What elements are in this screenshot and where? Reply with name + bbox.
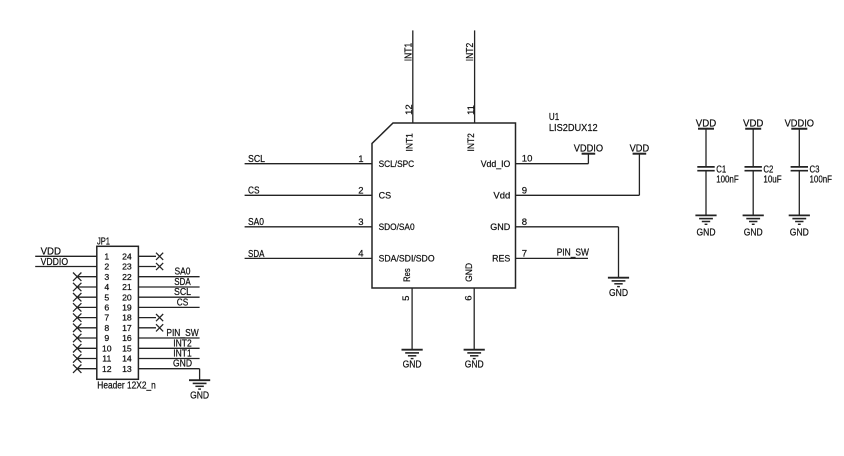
svg-text:12: 12: [102, 364, 112, 374]
svg-text:23: 23: [122, 262, 132, 272]
svg-text:Header 12X2_n: Header 12X2_n: [97, 380, 156, 391]
svg-text:18: 18: [122, 313, 132, 323]
svg-text:100nF: 100nF: [810, 174, 833, 185]
svg-text:LIS2DUX12: LIS2DUX12: [549, 123, 598, 134]
svg-text:SCL/SPC: SCL/SPC: [379, 159, 415, 169]
svg-text:9: 9: [522, 185, 527, 196]
svg-text:1: 1: [104, 251, 109, 261]
svg-text:JP1: JP1: [97, 237, 110, 248]
svg-text:VDDIO: VDDIO: [574, 144, 604, 155]
svg-text:9: 9: [104, 333, 109, 343]
svg-text:24: 24: [122, 251, 132, 261]
svg-text:21: 21: [122, 282, 132, 292]
svg-text:VDD: VDD: [696, 118, 716, 129]
svg-text:6: 6: [104, 303, 109, 313]
svg-text:14: 14: [122, 354, 132, 364]
svg-text:SDO/SA0: SDO/SA0: [379, 222, 415, 232]
svg-text:2: 2: [358, 186, 363, 197]
svg-text:GND: GND: [403, 360, 422, 371]
svg-text:GND: GND: [790, 227, 809, 238]
svg-text:13: 13: [122, 364, 132, 374]
svg-text:CS: CS: [177, 297, 189, 308]
svg-text:16: 16: [122, 333, 132, 343]
svg-text:VDD: VDD: [41, 246, 61, 257]
svg-text:2: 2: [104, 262, 109, 272]
svg-text:GND: GND: [744, 227, 763, 238]
svg-text:3: 3: [358, 217, 363, 228]
svg-text:U1: U1: [549, 112, 560, 123]
svg-text:GND: GND: [173, 359, 192, 370]
svg-text:8: 8: [104, 323, 109, 333]
svg-text:4: 4: [358, 249, 363, 260]
svg-text:SA0: SA0: [248, 217, 264, 228]
svg-text:GND: GND: [609, 288, 628, 299]
svg-text:15: 15: [122, 343, 132, 353]
svg-text:17: 17: [122, 323, 132, 333]
svg-text:VDDIO: VDDIO: [41, 257, 69, 268]
svg-text:8: 8: [522, 217, 527, 228]
svg-text:GND: GND: [697, 227, 716, 238]
svg-text:Vdd: Vdd: [493, 191, 510, 201]
svg-text:5: 5: [401, 296, 412, 301]
svg-text:10: 10: [522, 154, 533, 165]
svg-text:20: 20: [122, 292, 132, 302]
svg-text:5: 5: [104, 292, 109, 302]
svg-text:12: 12: [404, 104, 415, 115]
svg-text:RES: RES: [492, 254, 510, 264]
svg-text:INT2: INT2: [465, 42, 476, 61]
svg-text:VDD: VDD: [743, 118, 763, 129]
svg-text:CS: CS: [379, 191, 392, 201]
svg-text:SCL: SCL: [248, 154, 265, 165]
svg-text:10uF: 10uF: [763, 174, 781, 185]
svg-text:4: 4: [104, 282, 109, 292]
svg-text:SDA/SDI/SDO: SDA/SDI/SDO: [379, 254, 435, 264]
svg-text:19: 19: [122, 303, 132, 313]
svg-text:6: 6: [463, 296, 474, 301]
svg-text:Vdd_IO: Vdd_IO: [481, 159, 511, 169]
svg-text:INT1: INT1: [404, 133, 414, 151]
svg-text:GND: GND: [465, 360, 484, 371]
svg-text:7: 7: [104, 313, 109, 323]
svg-text:22: 22: [122, 272, 132, 282]
svg-text:PIN_SW: PIN_SW: [557, 248, 590, 259]
svg-text:INT2: INT2: [466, 133, 476, 151]
svg-text:GND: GND: [490, 222, 511, 232]
svg-text:11: 11: [102, 354, 111, 364]
svg-text:CS: CS: [248, 186, 260, 197]
svg-text:Res: Res: [402, 268, 412, 282]
svg-text:SDA: SDA: [248, 249, 265, 260]
svg-text:10: 10: [102, 343, 112, 353]
svg-text:3: 3: [104, 272, 109, 282]
svg-text:11: 11: [466, 105, 477, 115]
svg-text:INT1: INT1: [403, 42, 414, 61]
svg-text:GND: GND: [464, 262, 474, 281]
svg-text:1: 1: [358, 154, 363, 165]
svg-text:GND: GND: [190, 390, 209, 401]
svg-text:7: 7: [522, 248, 527, 259]
svg-text:VDDIO: VDDIO: [785, 118, 815, 129]
svg-text:100nF: 100nF: [716, 174, 739, 185]
svg-text:VDD: VDD: [630, 144, 650, 155]
